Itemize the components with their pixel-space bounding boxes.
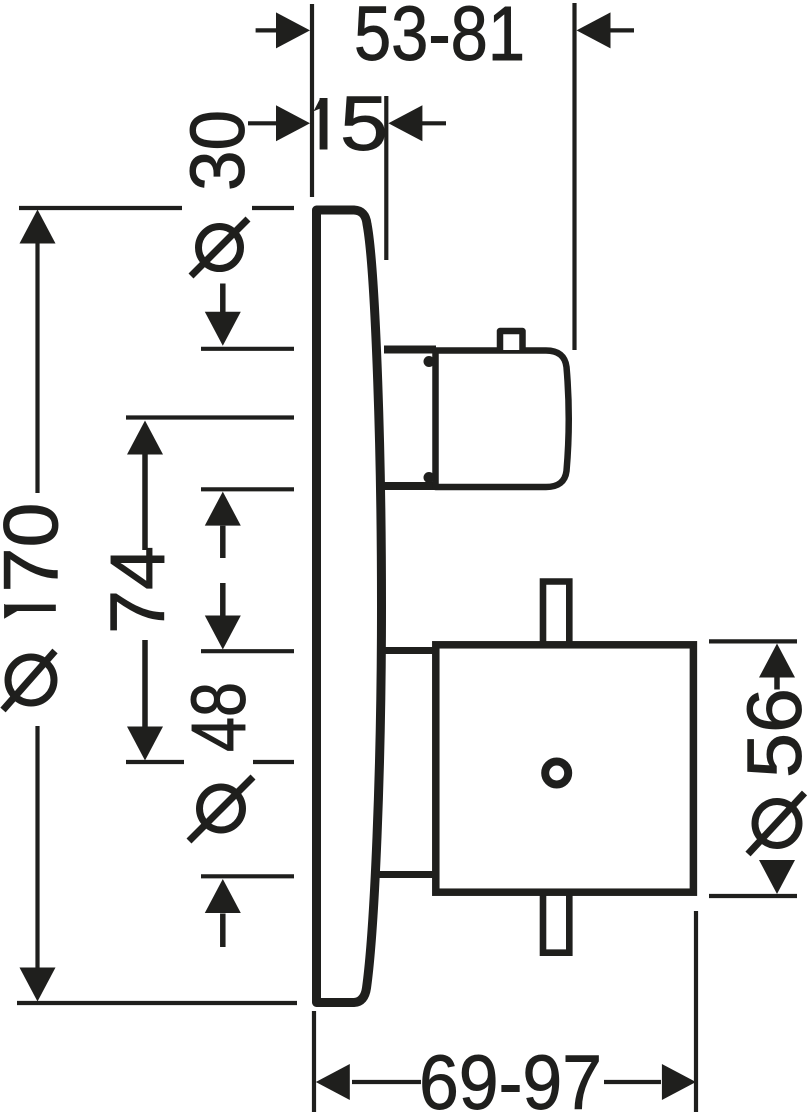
ext line 53-81 right [572, 3, 576, 350]
arrow O170 down [20, 968, 56, 1002]
arrow T3 down [205, 616, 241, 650]
basic set box [436, 645, 694, 892]
dim tails 15 [248, 121, 277, 125]
box stub bottom line [377, 871, 437, 878]
tick T2 [201, 487, 294, 491]
dim tails 69-97 [352, 1080, 421, 1084]
arrow 69-97 right [662, 1064, 696, 1100]
dim stems mid [220, 526, 226, 558]
diameter symbol O56 [748, 793, 805, 854]
dim line O170 [35, 244, 39, 494]
tick T3 [201, 649, 294, 653]
svg-text:53-81: 53-81 [354, 0, 525, 77]
dim stem O30 [220, 284, 226, 313]
diameter symbol O48 [189, 777, 253, 841]
svg-text:56: 56 [732, 688, 808, 778]
dim tails 53-81 [256, 28, 278, 32]
svg-text:5: 5 [340, 81, 388, 167]
dim stem O56 [774, 678, 780, 690]
arrow T4 up [205, 879, 241, 913]
arrow 53-81 right-side [577, 12, 611, 48]
arrow O56 up [759, 644, 795, 678]
center screw hole [545, 762, 568, 785]
ext line 74 top [126, 415, 294, 419]
ext line 69-97 right [694, 911, 698, 1112]
arrow 15 left-side [276, 105, 310, 141]
svg-text:30: 30 [175, 110, 261, 191]
tick right bottom [709, 894, 797, 898]
diameter symbol O170 [3, 651, 55, 710]
arrow 69-97 left [316, 1064, 350, 1100]
escutcheon plate (side view) [317, 210, 382, 1003]
svg-text:48: 48 [176, 682, 262, 752]
ext line plate-top left [19, 206, 182, 210]
arrow 15 right-side [388, 105, 422, 141]
ext line 53-81 left [310, 4, 314, 197]
diameter symbol O30 [191, 219, 248, 276]
ext line 15 right [384, 96, 388, 260]
ext line 74 bottom [126, 760, 184, 764]
tick T1 [201, 347, 294, 351]
valve stub top line [384, 346, 436, 354]
arrow 74 up [127, 421, 163, 455]
svg-text:70: 70 [0, 503, 75, 593]
dim stems 74 [142, 455, 148, 551]
arrow T2 up [205, 492, 241, 526]
seal bump top [424, 356, 435, 367]
svg-text:69-97: 69-97 [419, 1040, 602, 1112]
tick T4 [201, 874, 294, 878]
top pipe stub [543, 582, 569, 661]
seal bump bottom [424, 472, 435, 483]
box stub top line [384, 647, 437, 654]
svg-text:74: 74 [95, 546, 181, 634]
arrow 74 down [127, 727, 163, 761]
valve stub bottom line [381, 482, 436, 490]
tick right top [709, 639, 797, 643]
arrow O170 up [20, 210, 56, 244]
thermostat cartridge body [436, 351, 569, 488]
bottom pipe stub [543, 880, 569, 953]
label 15 [320, 98, 328, 150]
cartridge top tab [500, 331, 523, 350]
ext line 69-97 left [312, 1011, 316, 1112]
ext line plate-bottom left [17, 1001, 297, 1005]
arrow O30 down [205, 312, 241, 346]
arrow O56 down [759, 860, 795, 894]
label 170 (rotated) [4, 605, 56, 611]
arrow 53-81 left-side [276, 12, 310, 48]
